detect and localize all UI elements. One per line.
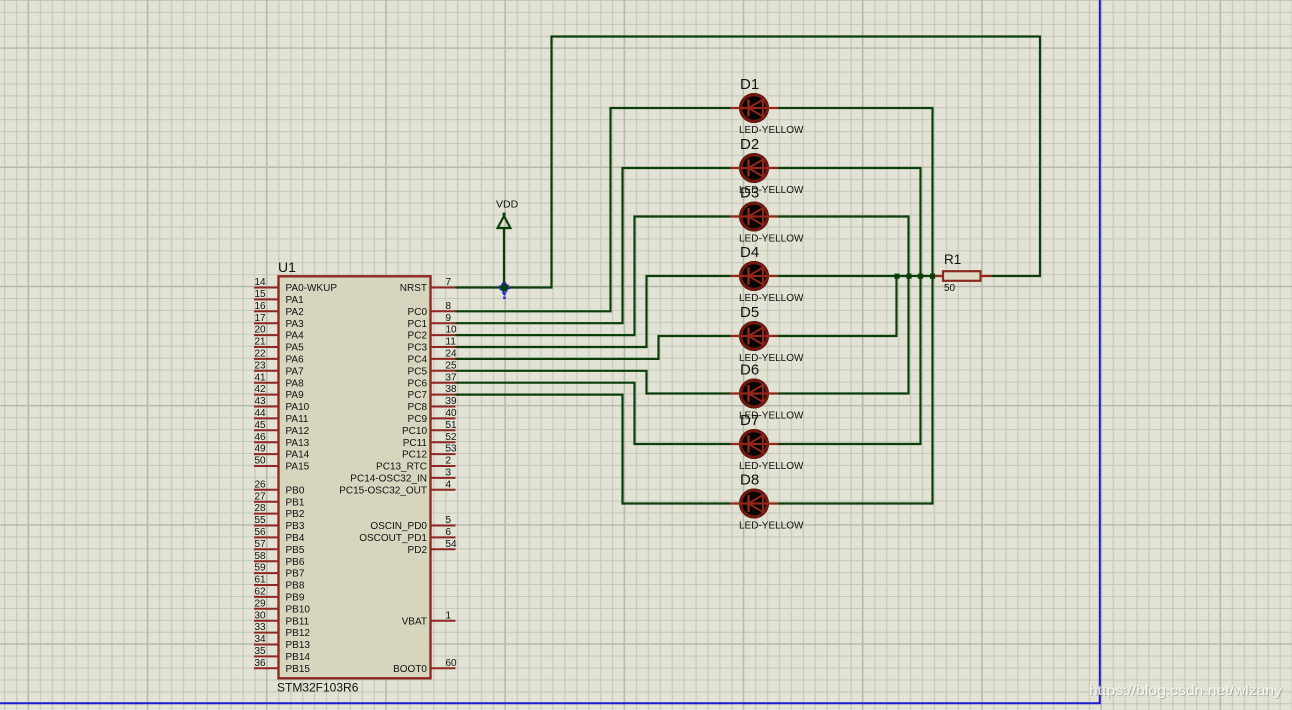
svg-text:6: 6 (446, 527, 452, 538)
svg-text:OSCOUT_PD1: OSCOUT_PD1 (359, 533, 427, 544)
svg-text:PB4: PB4 (286, 533, 305, 544)
svg-text:PC15-OSC32_OUT: PC15-OSC32_OUT (339, 485, 427, 496)
svg-text:37: 37 (446, 372, 458, 383)
svg-text:PB12: PB12 (286, 628, 311, 639)
svg-text:PA7: PA7 (286, 366, 305, 377)
svg-text:PD2: PD2 (408, 545, 428, 556)
svg-text:R1: R1 (944, 252, 961, 267)
svg-text:D8: D8 (740, 472, 759, 489)
svg-text:57: 57 (255, 539, 267, 550)
svg-text:PB15: PB15 (286, 664, 311, 675)
svg-text:D6: D6 (740, 362, 759, 379)
svg-text:49: 49 (255, 444, 267, 455)
svg-text:D4: D4 (740, 244, 759, 261)
svg-text:PB11: PB11 (286, 616, 310, 627)
svg-text:PC0: PC0 (408, 307, 428, 318)
svg-text:PB7: PB7 (286, 569, 305, 580)
svg-text:PB8: PB8 (286, 581, 305, 592)
svg-text:PC13_RTC: PC13_RTC (376, 462, 427, 473)
svg-text:D1: D1 (740, 76, 759, 93)
svg-text:26: 26 (255, 479, 267, 490)
svg-text:PC14-OSC32_IN: PC14-OSC32_IN (350, 474, 427, 485)
svg-text:10: 10 (446, 325, 458, 336)
svg-text:7: 7 (446, 277, 452, 288)
svg-text:27: 27 (255, 491, 267, 502)
svg-text:PB3: PB3 (286, 521, 305, 532)
svg-text:34: 34 (255, 634, 267, 645)
svg-text:https://blog.csdn.net/wlzany: https://blog.csdn.net/wlzany (1089, 682, 1282, 698)
svg-text:LED-YELLOW: LED-YELLOW (739, 461, 804, 472)
svg-text:5: 5 (446, 515, 452, 526)
svg-text:OSCIN_PD0: OSCIN_PD0 (370, 521, 427, 532)
svg-text:PA12: PA12 (286, 426, 310, 437)
svg-text:PC12: PC12 (402, 450, 427, 461)
svg-text:25: 25 (446, 360, 458, 371)
svg-text:D5: D5 (740, 304, 759, 321)
svg-text:PC4: PC4 (408, 355, 428, 366)
svg-text:PA0-WKUP: PA0-WKUP (286, 283, 338, 294)
svg-text:50: 50 (944, 283, 956, 294)
svg-text:58: 58 (255, 551, 267, 562)
svg-text:33: 33 (255, 622, 267, 633)
svg-text:VBAT: VBAT (402, 616, 427, 627)
svg-text:8: 8 (446, 301, 452, 312)
svg-text:14: 14 (255, 277, 267, 288)
svg-text:PA15: PA15 (286, 462, 310, 473)
svg-text:55: 55 (255, 515, 267, 526)
svg-text:NRST: NRST (400, 283, 427, 294)
svg-text:61: 61 (255, 575, 267, 586)
svg-text:21: 21 (255, 337, 267, 348)
svg-text:42: 42 (255, 384, 267, 395)
svg-text:PC7: PC7 (408, 390, 428, 401)
svg-text:56: 56 (255, 527, 267, 538)
svg-text:PA2: PA2 (286, 307, 305, 318)
svg-text:24: 24 (446, 349, 458, 360)
svg-text:9: 9 (446, 313, 452, 324)
svg-text:PC11: PC11 (403, 438, 428, 449)
svg-text:PC2: PC2 (408, 331, 428, 342)
svg-text:PA10: PA10 (286, 402, 310, 413)
svg-text:4: 4 (446, 479, 452, 490)
svg-text:PC8: PC8 (408, 402, 428, 413)
svg-text:54: 54 (446, 539, 458, 550)
svg-text:PB5: PB5 (286, 545, 305, 556)
svg-text:PC3: PC3 (408, 343, 428, 354)
svg-text:PB13: PB13 (286, 640, 311, 651)
svg-text:44: 44 (255, 408, 267, 419)
svg-text:50: 50 (255, 456, 267, 467)
svg-text:20: 20 (255, 325, 267, 336)
svg-text:22: 22 (255, 349, 267, 360)
svg-text:PB10: PB10 (286, 604, 311, 615)
svg-text:28: 28 (255, 503, 267, 514)
svg-text:PB9: PB9 (286, 593, 305, 604)
svg-text:1: 1 (446, 610, 452, 621)
svg-text:PA5: PA5 (286, 343, 305, 354)
svg-text:59: 59 (255, 563, 267, 574)
svg-text:U1: U1 (278, 259, 296, 275)
svg-text:PC6: PC6 (408, 378, 428, 389)
svg-text:38: 38 (446, 384, 458, 395)
svg-text:PA6: PA6 (286, 355, 305, 366)
svg-text:LED-YELLOW: LED-YELLOW (739, 293, 804, 304)
svg-text:PA4: PA4 (286, 331, 305, 342)
svg-text:PB1: PB1 (286, 497, 305, 508)
svg-text:35: 35 (255, 646, 267, 657)
svg-text:LED-YELLOW: LED-YELLOW (739, 125, 804, 136)
svg-text:51: 51 (446, 420, 458, 431)
svg-text:52: 52 (446, 432, 458, 443)
svg-text:PA14: PA14 (286, 450, 310, 461)
svg-text:PC1: PC1 (408, 319, 428, 330)
svg-text:17: 17 (255, 313, 267, 324)
svg-text:BOOT0: BOOT0 (393, 664, 427, 675)
svg-text:STM32F103R6: STM32F103R6 (277, 681, 359, 695)
svg-text:46: 46 (255, 432, 267, 443)
svg-text:23: 23 (255, 360, 267, 371)
svg-text:PC9: PC9 (408, 414, 428, 425)
svg-text:PB6: PB6 (286, 557, 305, 568)
svg-text:PA11: PA11 (286, 414, 309, 425)
svg-text:D2: D2 (740, 136, 759, 153)
svg-text:60: 60 (446, 658, 458, 669)
svg-text:PA1: PA1 (286, 295, 305, 306)
svg-text:62: 62 (255, 587, 267, 598)
svg-text:PB0: PB0 (286, 485, 305, 496)
svg-text:41: 41 (255, 372, 267, 383)
svg-text:PA9: PA9 (286, 390, 305, 401)
svg-text:36: 36 (255, 658, 267, 669)
svg-text:PA8: PA8 (286, 378, 305, 389)
svg-text:11: 11 (446, 337, 457, 348)
svg-text:LED-YELLOW: LED-YELLOW (739, 521, 804, 532)
svg-text:LED-YELLOW: LED-YELLOW (739, 234, 804, 245)
svg-text:16: 16 (255, 301, 267, 312)
svg-text:PC10: PC10 (402, 426, 427, 437)
svg-text:VDD: VDD (496, 199, 519, 211)
svg-text:PA13: PA13 (286, 438, 310, 449)
svg-text:3: 3 (446, 468, 452, 479)
svg-text:39: 39 (446, 396, 458, 407)
svg-text:PA3: PA3 (286, 319, 305, 330)
svg-text:D3: D3 (740, 185, 759, 202)
svg-text:2: 2 (446, 456, 452, 467)
svg-text:PB2: PB2 (286, 509, 305, 520)
svg-text:PB14: PB14 (286, 652, 311, 663)
svg-text:53: 53 (446, 444, 458, 455)
svg-text:15: 15 (255, 289, 267, 300)
svg-text:PC5: PC5 (408, 366, 428, 377)
svg-text:29: 29 (255, 598, 267, 609)
svg-text:43: 43 (255, 396, 267, 407)
svg-text:40: 40 (446, 408, 458, 419)
svg-text:D7: D7 (740, 412, 759, 429)
svg-text:30: 30 (255, 610, 267, 621)
svg-text:45: 45 (255, 420, 267, 431)
